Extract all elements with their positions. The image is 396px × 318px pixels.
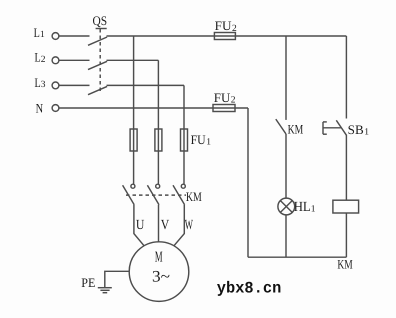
svg-text:KM: KM [337, 256, 353, 271]
svg-text:HL: HL [294, 200, 311, 215]
svg-text:L: L [35, 50, 41, 65]
svg-text:L: L [35, 75, 41, 90]
svg-text:KM: KM [288, 121, 304, 136]
svg-text:2: 2 [41, 55, 46, 65]
svg-text:N: N [36, 101, 44, 116]
svg-text:2: 2 [232, 24, 237, 34]
svg-text:QS: QS [93, 13, 108, 28]
svg-text:L: L [34, 25, 40, 40]
svg-text:1: 1 [364, 127, 369, 137]
svg-text:ybx8.cn: ybx8.cn [217, 280, 281, 298]
svg-text:3: 3 [41, 80, 46, 90]
svg-text:1: 1 [40, 30, 45, 40]
svg-text:M: M [155, 249, 163, 265]
svg-text:FU: FU [191, 132, 207, 147]
svg-text:KM: KM [186, 189, 202, 204]
svg-text:SB: SB [348, 122, 364, 137]
svg-text:FU: FU [214, 90, 231, 105]
svg-text:V: V [161, 218, 170, 233]
svg-text:PE: PE [81, 275, 95, 290]
svg-text:2: 2 [231, 96, 236, 106]
svg-text:3~: 3~ [152, 269, 170, 286]
svg-text:1: 1 [206, 138, 211, 148]
svg-text:W: W [185, 218, 194, 233]
svg-text:1: 1 [311, 205, 316, 215]
svg-text:FU: FU [215, 18, 232, 33]
svg-text:U: U [136, 218, 145, 233]
